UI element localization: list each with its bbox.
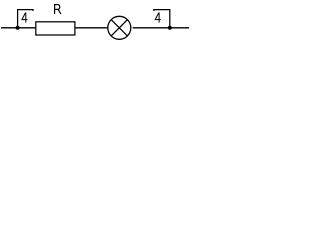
junction dot (left)	[16, 26, 20, 30]
lamp circle	[108, 16, 131, 39]
resistor R body	[36, 22, 75, 35]
lamp cross stroke 2	[111, 20, 127, 36]
net label 4 (left): digit glyph	[21, 13, 27, 23]
junction dot (right)	[168, 26, 172, 30]
wire: left segment from edge to resistor	[1, 27, 36, 29]
net label 4 (right): flag outline and stem down to wire	[154, 10, 170, 28]
wire: right segment lamp to edge	[133, 27, 189, 29]
net label 4 (left): flag outline and stem down to wire	[18, 10, 33, 28]
net label 4 (right): digit glyph	[155, 13, 161, 23]
lamp cross stroke 1	[111, 20, 127, 36]
resistor label R	[55, 5, 61, 14]
wire: middle segment resistor to lamp	[75, 27, 108, 29]
